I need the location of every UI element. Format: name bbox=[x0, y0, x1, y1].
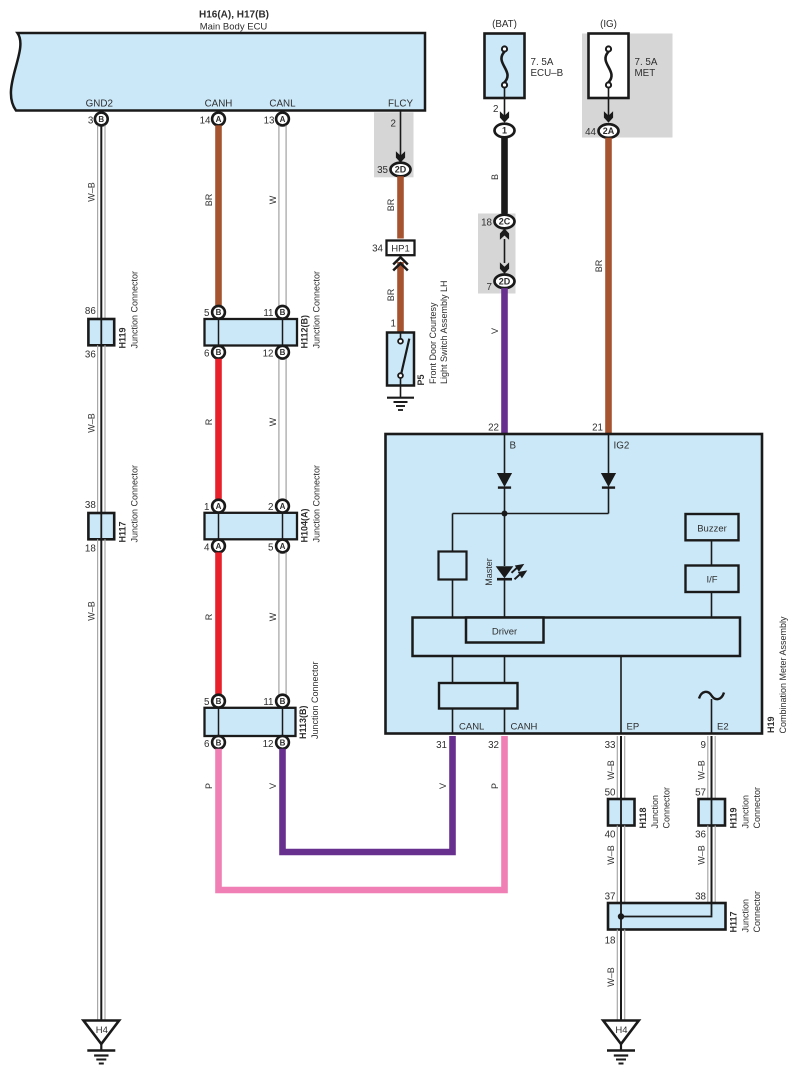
svg-text:ECU–B: ECU–B bbox=[531, 68, 564, 79]
svg-text:H119: H119 bbox=[729, 807, 739, 828]
wire bus to LED bbox=[504, 514, 506, 567]
wire bus to square block bbox=[452, 514, 454, 552]
svg-text:H118: H118 bbox=[638, 807, 648, 828]
svg-text:Junction: Junction bbox=[650, 795, 660, 829]
wire meter B lead bbox=[504, 434, 506, 473]
wire label W-B E2b bbox=[697, 845, 707, 865]
wire W CANL seg1 bbox=[279, 125, 286, 306]
wire H113 internal left bbox=[218, 708, 220, 736]
svg-text:Junction Connector: Junction Connector bbox=[130, 465, 140, 543]
wire LED to driver bar bbox=[504, 580, 506, 618]
svg-text:11: 11 bbox=[263, 308, 273, 319]
pin number 32 bbox=[488, 740, 499, 751]
svg-text:W: W bbox=[268, 417, 278, 426]
svg-text:W–B: W–B bbox=[606, 967, 616, 987]
svg-text:34: 34 bbox=[372, 244, 383, 255]
pin number 2 (FLCY) bbox=[391, 119, 396, 130]
label H117 bbox=[118, 521, 128, 542]
svg-text:Junction Connector: Junction Connector bbox=[312, 465, 322, 543]
junction connector H104(A) bbox=[205, 513, 298, 540]
driver bar block bbox=[413, 618, 741, 657]
buzzer block bbox=[686, 514, 739, 540]
svg-text:Buzzer: Buzzer bbox=[697, 524, 727, 535]
wire W-B GND2 seg1 bbox=[98, 125, 105, 319]
pin number 1 (H104) bbox=[204, 502, 209, 513]
connector arrow into 2D bbox=[396, 151, 405, 162]
pin number 6 (H112) bbox=[204, 349, 210, 360]
wire label V right bbox=[438, 783, 448, 789]
svg-text:2C: 2C bbox=[499, 217, 511, 227]
svg-text:A: A bbox=[280, 502, 286, 511]
svg-text:32: 32 bbox=[488, 740, 499, 751]
connector 2D (pin 35) bbox=[391, 163, 411, 177]
wire BR 2A to meter pin 21 bbox=[605, 138, 612, 434]
svg-text:H112(B): H112(B) bbox=[300, 315, 310, 349]
wire W-B GND2 seg3 bbox=[98, 539, 105, 1020]
svg-text:14: 14 bbox=[200, 116, 211, 127]
svg-text:V: V bbox=[490, 328, 500, 334]
wire CAN block to CANL pin bbox=[452, 709, 454, 734]
svg-text:4: 4 bbox=[204, 542, 210, 553]
label E2 (meter) bbox=[717, 722, 729, 733]
label H104 Junction Connector bbox=[312, 465, 322, 543]
label H118 Connector bbox=[662, 787, 672, 829]
chevron shield marks below HP1 bbox=[393, 257, 408, 270]
svg-text:Junction: Junction bbox=[741, 899, 751, 933]
wire W CANL seg2 bbox=[279, 359, 286, 500]
svg-text:1: 1 bbox=[204, 502, 209, 513]
svg-text:13: 13 bbox=[264, 116, 275, 127]
wire lead below ECU-B fuse bbox=[504, 88, 506, 117]
wire R H104 to H113 bbox=[215, 552, 222, 694]
svg-text:12: 12 bbox=[263, 739, 274, 750]
svg-text:11: 11 bbox=[263, 697, 273, 708]
I/F block bbox=[686, 566, 739, 593]
terminal 1 (A) H104 bbox=[212, 500, 225, 513]
wire buzzer to I/F bbox=[711, 540, 713, 565]
svg-text:33: 33 bbox=[605, 740, 616, 751]
fuse MET box bbox=[589, 34, 629, 99]
svg-text:W–B: W–B bbox=[697, 845, 707, 865]
terminal 11 (B) H112 bbox=[276, 306, 289, 319]
pin number 50 bbox=[605, 788, 616, 799]
svg-text:A: A bbox=[280, 542, 286, 551]
label (BAT) bbox=[492, 19, 517, 30]
pin number 13 bbox=[264, 116, 275, 127]
svg-text:38: 38 bbox=[85, 500, 96, 511]
wire W CANL seg3 bbox=[279, 552, 286, 694]
wire label R 1 bbox=[204, 418, 214, 425]
svg-text:7. 5A: 7. 5A bbox=[635, 57, 658, 68]
junction connector H117 (lower) bbox=[608, 903, 726, 930]
pin number 3 bbox=[88, 116, 94, 127]
svg-text:B: B bbox=[216, 348, 222, 357]
pin number 2 (BAT) bbox=[493, 104, 498, 115]
junction connector H118 bbox=[608, 799, 635, 826]
pin number 12 (H112) bbox=[263, 349, 274, 360]
pin number 12 (H113) bbox=[263, 739, 274, 750]
label P5 bbox=[416, 374, 426, 385]
label CANH bbox=[205, 99, 233, 110]
wire label W-B 1 bbox=[86, 182, 96, 202]
svg-text:HP1: HP1 bbox=[391, 244, 409, 255]
label IG2 (meter) bbox=[614, 441, 630, 452]
svg-text:B: B bbox=[216, 738, 222, 747]
label Combination Meter Assembly bbox=[778, 616, 788, 734]
label Driver bbox=[492, 627, 517, 638]
label Front Door Courtesy bbox=[428, 302, 438, 384]
pin number 36 (lower H119) bbox=[695, 830, 706, 841]
svg-text:44: 44 bbox=[585, 127, 596, 138]
label H19 bbox=[766, 716, 776, 733]
label EP (meter) bbox=[627, 722, 640, 733]
connector shading 2D (pin 35) gray area bbox=[374, 112, 414, 177]
pin number 18 (H117) bbox=[85, 544, 96, 555]
svg-text:50: 50 bbox=[605, 788, 616, 799]
svg-text:22: 22 bbox=[488, 423, 499, 434]
label H118 bbox=[638, 807, 648, 828]
wire H113 internal right bbox=[282, 708, 284, 736]
svg-text:21: 21 bbox=[592, 423, 603, 434]
wire tilde to E2 pin bbox=[711, 699, 713, 734]
connector arrow into 2D bbox=[500, 262, 509, 273]
svg-text:Connector: Connector bbox=[662, 787, 672, 829]
pin number 21 bbox=[592, 423, 603, 434]
svg-text:W–B: W–B bbox=[697, 760, 707, 780]
wire label W-B 2 bbox=[86, 413, 96, 433]
svg-text:18: 18 bbox=[85, 544, 96, 555]
svg-text:35: 35 bbox=[377, 165, 388, 176]
svg-text:CANH: CANH bbox=[205, 99, 233, 110]
label H119 bbox=[118, 327, 128, 348]
svg-text:R: R bbox=[204, 418, 214, 425]
terminal 5 (A) H104 bbox=[276, 540, 289, 553]
wire H112 internal left bbox=[218, 319, 220, 346]
wire IG2 diode to bus bbox=[608, 488, 610, 514]
svg-text:37: 37 bbox=[605, 892, 616, 903]
pin number 4 (H104) bbox=[204, 542, 210, 553]
svg-text:A: A bbox=[216, 115, 222, 124]
diode on B line bbox=[497, 473, 512, 488]
svg-text:B: B bbox=[280, 697, 286, 706]
svg-text:W–B: W–B bbox=[606, 760, 616, 780]
wire W-B EP seg2 bbox=[617, 826, 624, 904]
wire driver bar to CAN block left bbox=[452, 656, 454, 683]
pin number 5b (H104) bbox=[268, 542, 274, 553]
svg-text:V: V bbox=[268, 783, 278, 789]
svg-text:Combination Meter Assembly: Combination Meter Assembly bbox=[778, 616, 788, 734]
connector 2C (pin 18) bbox=[495, 215, 515, 229]
pin number 38 (lower H117) bbox=[695, 892, 706, 903]
diode on IG2 line bbox=[601, 473, 616, 488]
wire H119b internal bbox=[711, 799, 713, 826]
pin number 11 (H113) bbox=[263, 697, 273, 708]
svg-text:3: 3 bbox=[88, 116, 94, 127]
combination meter assembly H19 box bbox=[386, 434, 763, 734]
pin number 18 (2C) bbox=[481, 218, 492, 229]
svg-text:7. 5A: 7. 5A bbox=[531, 57, 554, 68]
wire label BR bbox=[386, 198, 396, 211]
label CANL bbox=[269, 99, 296, 110]
junction connector H117 (upper) bbox=[88, 513, 114, 539]
pin number 33 bbox=[605, 740, 616, 751]
ground H4 (left) bbox=[84, 1021, 120, 1064]
svg-text:5: 5 bbox=[204, 308, 210, 319]
pin number 14 bbox=[200, 116, 211, 127]
svg-text:1: 1 bbox=[502, 126, 507, 136]
svg-text:H4: H4 bbox=[615, 1025, 627, 1036]
svg-text:H117: H117 bbox=[729, 911, 739, 932]
svg-text:Junction Connector: Junction Connector bbox=[312, 271, 322, 349]
label H119 Junction Connector bbox=[130, 271, 140, 349]
wire label B bbox=[490, 174, 500, 180]
LED Master indicator bbox=[496, 564, 528, 579]
svg-text:A: A bbox=[280, 115, 286, 124]
svg-text:W–B: W–B bbox=[86, 182, 96, 202]
pin number 40 bbox=[605, 830, 616, 841]
svg-text:Master: Master bbox=[484, 558, 494, 586]
wire label W-B 3 bbox=[86, 601, 96, 621]
wire FLCY lead bbox=[400, 111, 402, 157]
svg-text:B: B bbox=[280, 738, 286, 747]
terminal 5 (B) H112 bbox=[212, 306, 225, 319]
pin number 36 (H119) bbox=[85, 350, 96, 361]
fuse element MET bbox=[605, 46, 611, 87]
pin number 37 bbox=[605, 892, 616, 903]
wire label V left bbox=[268, 783, 278, 789]
label H119b Junction bbox=[741, 795, 751, 829]
svg-text:2A: 2A bbox=[603, 126, 615, 136]
svg-text:B: B bbox=[490, 174, 500, 180]
label I/F bbox=[706, 575, 717, 586]
svg-text:I/F: I/F bbox=[706, 575, 717, 586]
wire label P right bbox=[490, 783, 500, 789]
pin number 31 bbox=[436, 740, 447, 751]
pin 13 terminal (A) CANL bbox=[276, 113, 289, 126]
pin number 34 bbox=[372, 244, 383, 255]
svg-text:BR: BR bbox=[204, 193, 214, 206]
wire B fuse to 2C bbox=[501, 137, 508, 215]
junction connector H113(B) bbox=[205, 708, 296, 736]
wire CAN block to CANH pin bbox=[504, 709, 506, 734]
svg-text:6: 6 bbox=[204, 739, 210, 750]
svg-text:V: V bbox=[438, 783, 448, 789]
connector shading 2A gray area bbox=[582, 34, 673, 138]
pin number 7 (2D) bbox=[487, 282, 492, 293]
svg-text:86: 86 bbox=[85, 306, 96, 317]
svg-text:P: P bbox=[490, 783, 500, 789]
label H119b Connector bbox=[752, 787, 762, 829]
label HP1 bbox=[391, 244, 409, 255]
pin number 57 bbox=[695, 788, 706, 799]
svg-text:12: 12 bbox=[263, 349, 274, 360]
svg-text:H113(B): H113(B) bbox=[298, 705, 308, 739]
pin 3 terminal (B) GND2 bbox=[95, 113, 108, 126]
svg-text:31: 31 bbox=[436, 740, 447, 751]
svg-text:Junction Connector: Junction Connector bbox=[130, 271, 140, 349]
pin number 38 (H117) bbox=[85, 500, 96, 511]
wire label W-B E2a bbox=[697, 760, 707, 780]
label H119 lower bbox=[729, 807, 739, 828]
svg-text:5: 5 bbox=[268, 542, 274, 553]
svg-text:B: B bbox=[510, 441, 517, 452]
label 7.5A MET bbox=[635, 57, 658, 68]
label Buzzer bbox=[697, 524, 727, 535]
svg-text:BR: BR bbox=[386, 198, 396, 211]
connector 2A (pin 44) bbox=[599, 124, 619, 138]
wire label BR 2 bbox=[386, 288, 396, 301]
ECU Main Body ECU box bbox=[11, 33, 425, 111]
label H113(B) bbox=[298, 705, 308, 739]
wire label P left bbox=[204, 783, 214, 789]
wire H104 internal left bbox=[218, 513, 220, 540]
label Master bbox=[484, 558, 494, 586]
connector arrow into 1 bbox=[500, 111, 509, 122]
wire lead below MET fuse bbox=[608, 88, 610, 117]
terminal 6 (B) H112 bbox=[212, 346, 225, 359]
wire driver bar to EP pin bbox=[620, 656, 622, 734]
pin 14 terminal (A) CANH bbox=[212, 113, 225, 126]
terminal 6 (B) H113 bbox=[212, 736, 225, 749]
svg-text:5: 5 bbox=[204, 697, 210, 708]
wire label W 3 bbox=[268, 612, 278, 621]
label FLCY bbox=[388, 99, 414, 110]
svg-text:A: A bbox=[216, 502, 222, 511]
svg-text:CANL: CANL bbox=[269, 99, 296, 110]
label Light Switch Assembly LH bbox=[439, 280, 449, 384]
pin number 35 bbox=[377, 165, 388, 176]
label 7.5A ECU-B bbox=[531, 57, 554, 68]
noise suppressor tilde at E2 bbox=[699, 692, 724, 699]
svg-text:7: 7 bbox=[487, 282, 492, 293]
fuse element ECU-B bbox=[501, 46, 507, 87]
svg-text:6: 6 bbox=[204, 349, 210, 360]
svg-text:1: 1 bbox=[391, 319, 396, 330]
terminal 12 (B) H113 bbox=[276, 736, 289, 749]
label H117b Connector bbox=[752, 891, 762, 933]
wire meter IG2 lead bbox=[608, 434, 610, 473]
svg-text:P5: P5 bbox=[416, 374, 426, 385]
wire H117 internal bbox=[100, 513, 102, 539]
svg-text:36: 36 bbox=[695, 830, 706, 841]
svg-text:Front Door Courtesy: Front Door Courtesy bbox=[428, 302, 438, 384]
svg-text:H19: H19 bbox=[766, 716, 776, 733]
wire H112 internal right bbox=[282, 319, 284, 346]
svg-text:2D: 2D bbox=[499, 276, 511, 286]
svg-text:36: 36 bbox=[85, 350, 96, 361]
svg-text:P: P bbox=[204, 783, 214, 789]
label H104(A) bbox=[300, 508, 310, 542]
pin number 5 (H112) bbox=[204, 308, 210, 319]
label H118 Junction bbox=[650, 795, 660, 829]
svg-text:EP: EP bbox=[627, 722, 640, 733]
svg-text:Connector: Connector bbox=[752, 787, 762, 829]
wire W-B E2 seg1 bbox=[708, 736, 715, 799]
ECU title H16(A), H17(B) Main Body ECU bbox=[199, 10, 269, 33]
svg-text:(IG): (IG) bbox=[600, 19, 617, 30]
terminal 5 (B) H113 bbox=[212, 695, 225, 708]
wire label W 2 bbox=[268, 417, 278, 426]
svg-text:B: B bbox=[98, 115, 104, 124]
CAN transceiver block bbox=[439, 683, 518, 709]
svg-text:B: B bbox=[216, 697, 222, 706]
label H112 Junction Connector bbox=[312, 271, 322, 349]
svg-text:B: B bbox=[280, 348, 286, 357]
pin number 1 (P5) bbox=[391, 319, 396, 330]
svg-text:2: 2 bbox=[268, 502, 273, 513]
wire label V bbox=[490, 328, 500, 334]
label B (meter) bbox=[510, 441, 517, 452]
svg-text:CANL: CANL bbox=[459, 722, 484, 733]
label CANL (meter) bbox=[459, 722, 484, 733]
wire W-B EP seg1 bbox=[617, 736, 624, 799]
junction connector H119 (lower) bbox=[699, 799, 726, 826]
label H117b Junction bbox=[741, 899, 751, 933]
wire BR FLCY to HP1 bbox=[397, 176, 404, 238]
svg-text:40: 40 bbox=[605, 830, 616, 841]
wire B diode to bus bbox=[504, 488, 506, 514]
terminal 2 (A) H104 bbox=[276, 500, 289, 513]
svg-text:Main Body ECU: Main Body ECU bbox=[200, 22, 268, 33]
svg-text:CANH: CANH bbox=[511, 722, 538, 733]
wire label W-B EP1 bbox=[606, 760, 616, 780]
splice HP1 bbox=[387, 241, 415, 256]
label H117 Junction Connector bbox=[130, 465, 140, 543]
internal block (square) bbox=[439, 552, 467, 580]
svg-text:9: 9 bbox=[701, 740, 706, 751]
svg-text:2: 2 bbox=[391, 119, 396, 130]
svg-text:FLCY: FLCY bbox=[388, 99, 414, 110]
pin number 6 (H113) bbox=[204, 739, 210, 750]
junction connector H112(B) bbox=[205, 319, 298, 346]
switch P5 body bbox=[387, 333, 414, 386]
wire W-B EP seg3 bbox=[617, 930, 624, 1021]
wire V 2D to meter pin 22 bbox=[501, 288, 508, 434]
wire bus line bbox=[453, 513, 609, 515]
wire label W-B EP2 bbox=[606, 845, 616, 865]
svg-text:B: B bbox=[280, 308, 286, 317]
wire square block to driver bar bbox=[452, 580, 454, 618]
svg-text:57: 57 bbox=[695, 788, 706, 799]
node junction dot on bus bbox=[502, 511, 508, 517]
label GND2 bbox=[86, 99, 113, 110]
wire label W-B EP3 bbox=[606, 967, 616, 987]
svg-text:H16(A), H17(B): H16(A), H17(B) bbox=[199, 10, 269, 21]
label H112(B) bbox=[300, 315, 310, 349]
wire H104 internal right bbox=[282, 513, 284, 540]
pin number 86 bbox=[85, 306, 96, 317]
wire lead 2C to 2D bbox=[504, 239, 506, 263]
wire label BR CANH bbox=[204, 193, 214, 206]
terminal 12 (B) H112 bbox=[276, 346, 289, 359]
svg-text:2: 2 bbox=[493, 104, 498, 115]
pin number 18 (lower H117) bbox=[605, 936, 616, 947]
wire BR CANH bbox=[215, 125, 222, 306]
wire W-B GND2 seg2 bbox=[98, 345, 105, 513]
svg-text:R: R bbox=[204, 613, 214, 620]
switch P5 contacts bbox=[398, 333, 409, 386]
label (IG) bbox=[600, 19, 617, 30]
wire H119 internal bbox=[100, 319, 102, 345]
label H113 Junction Connector bbox=[310, 661, 320, 739]
wire R H112 to H104 bbox=[215, 359, 222, 500]
connector arrow out of 2C bbox=[500, 229, 509, 240]
wire I/F to driver bar bbox=[711, 592, 713, 618]
svg-text:H117: H117 bbox=[118, 521, 128, 542]
label CANH (meter) bbox=[511, 722, 538, 733]
ground at P5 bbox=[387, 386, 414, 411]
svg-text:E2: E2 bbox=[717, 722, 729, 733]
